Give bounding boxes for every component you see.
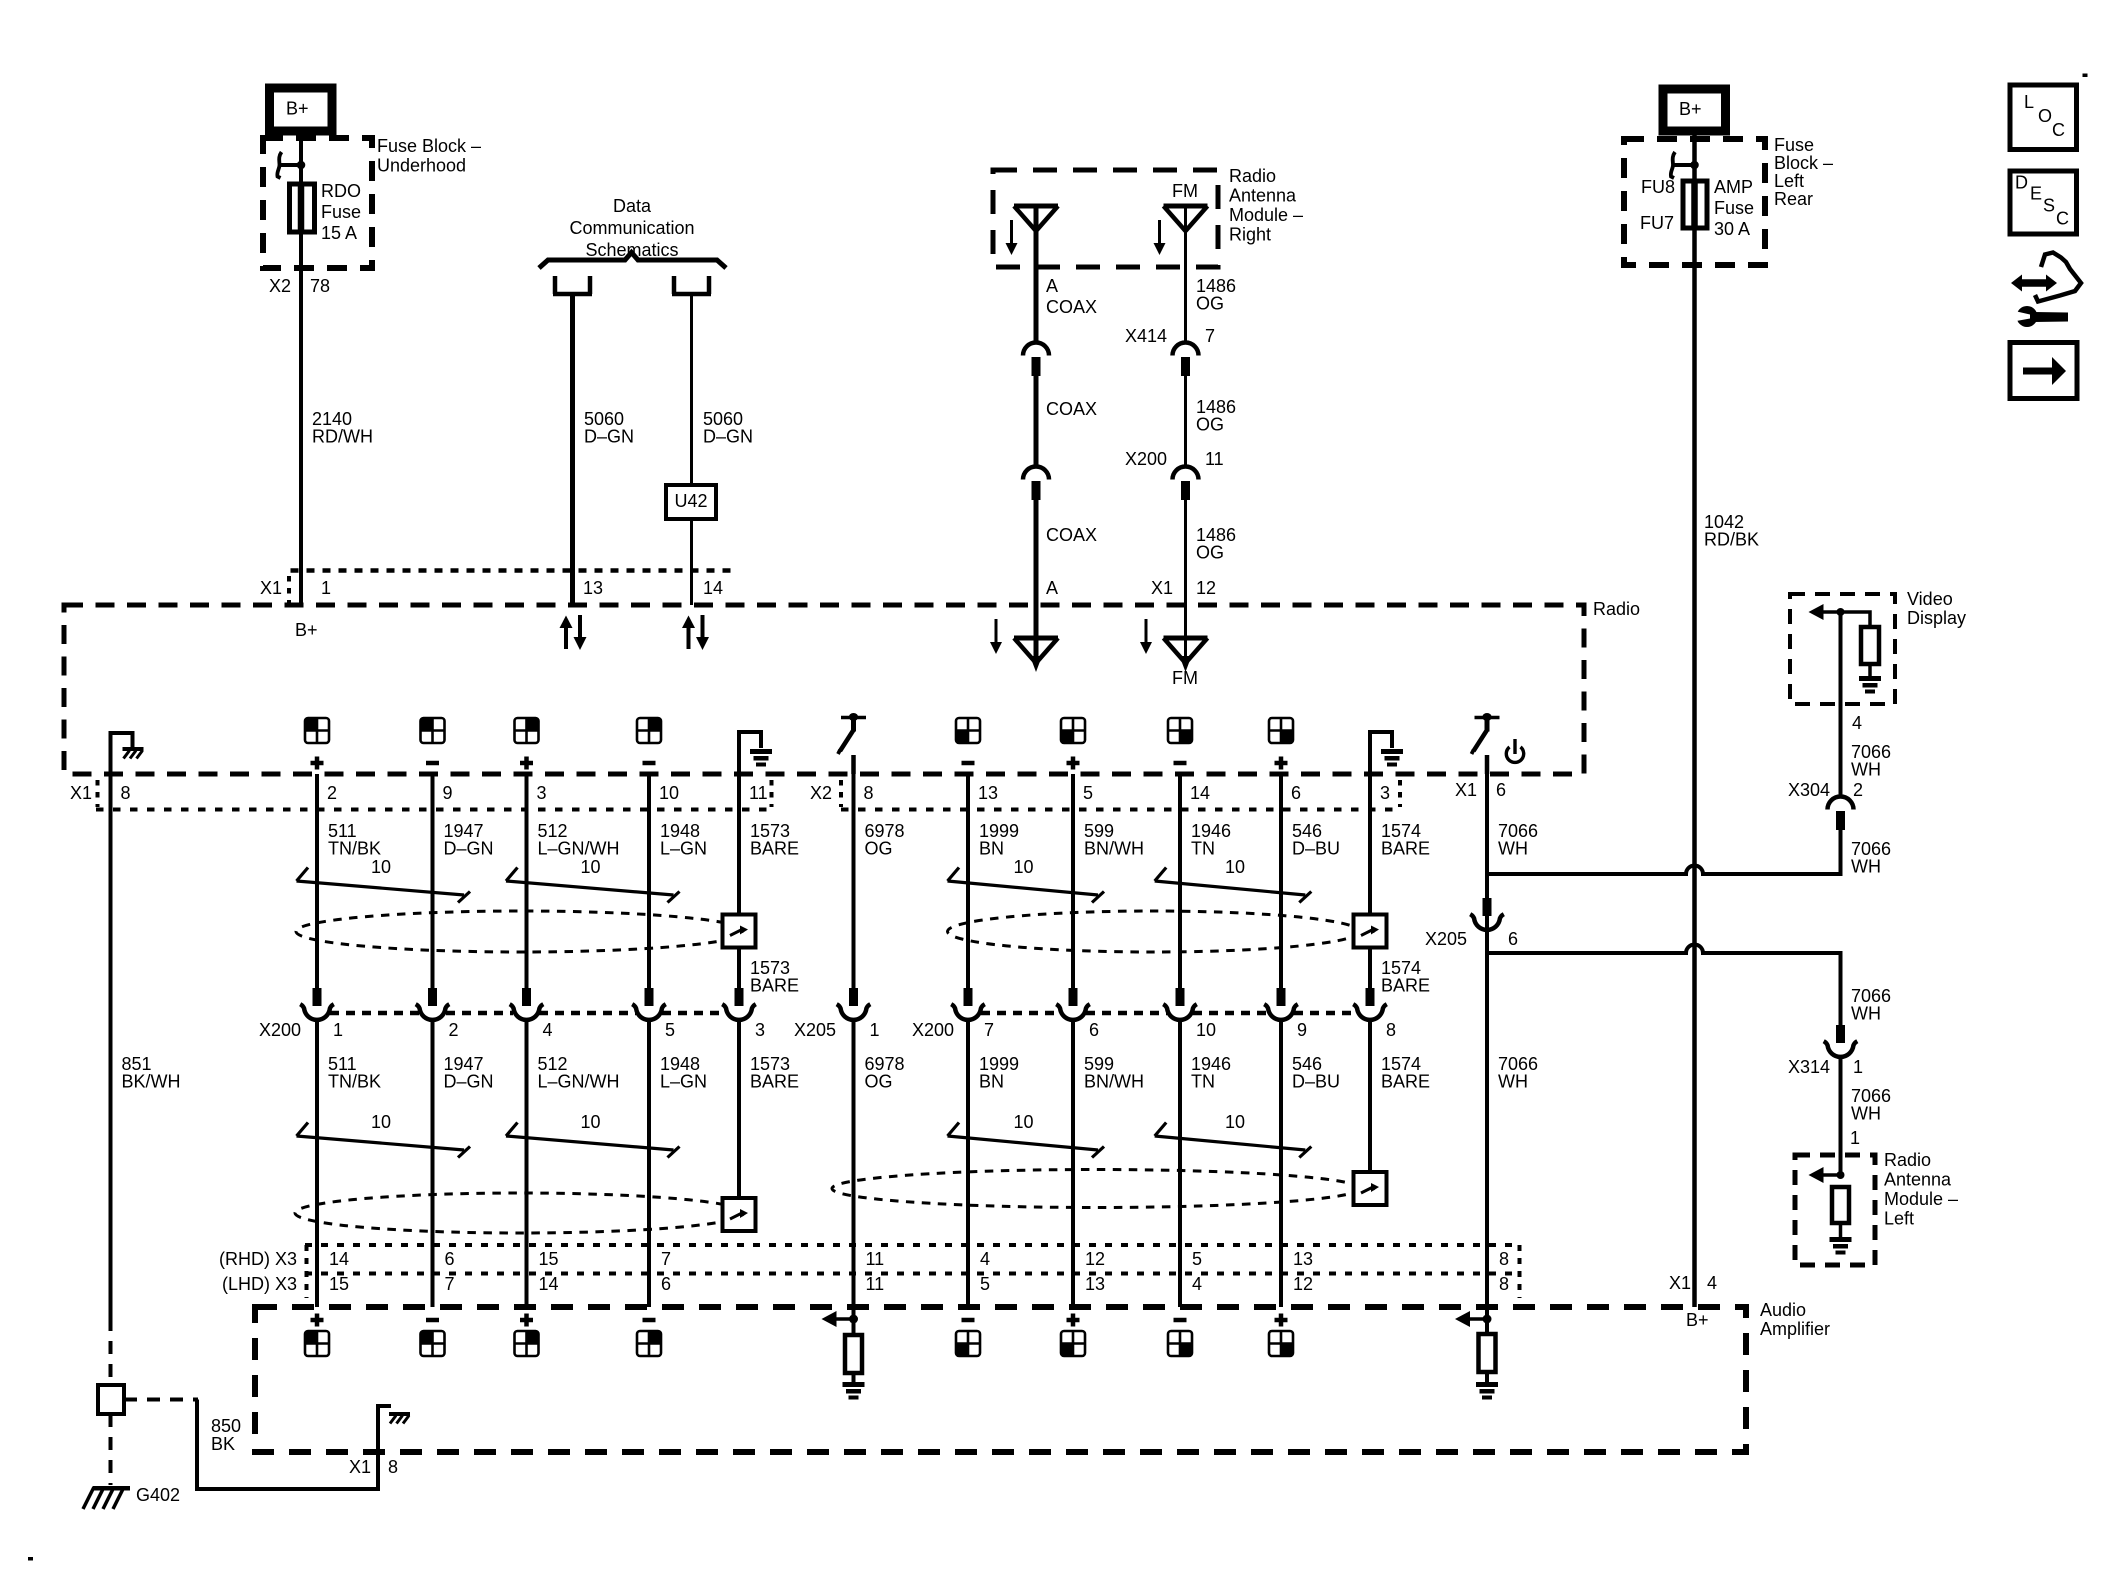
wire 2140 RD/WH fuse to radio X1-1 bbox=[299, 232, 303, 605]
label 512 L–GN/WH (upper) bbox=[538, 821, 620, 859]
svg-text:Radio: Radio bbox=[1229, 166, 1276, 186]
X3 row left edge dots bbox=[305, 1245, 309, 1298]
svg-text:10: 10 bbox=[581, 857, 601, 877]
polarity - (radio output) bbox=[1174, 761, 1187, 766]
separator after pin 3 (X2) bbox=[1398, 780, 1402, 807]
svg-text:RD/WH: RD/WH bbox=[312, 427, 373, 447]
icon connector-repair (arrow + hook + wrench) bbox=[2008, 253, 2081, 328]
speaker icon RF (amplifier) bbox=[637, 1331, 661, 1356]
connector row X200 dotted line (left group) bbox=[330, 1011, 419, 1016]
svg-text:D–BU: D–BU bbox=[1292, 1072, 1340, 1092]
svg-text:COAX: COAX bbox=[1046, 399, 1097, 419]
connector X1 pin 6 labels (7066) bbox=[1455, 780, 1506, 800]
svg-text:WH: WH bbox=[1498, 1072, 1528, 1092]
label Radio Antenna Module - Left bbox=[1884, 1150, 1958, 1229]
svg-text:D: D bbox=[2015, 173, 2028, 193]
svg-text:OG: OG bbox=[1196, 415, 1224, 435]
connector row X3 RHD dotted line bbox=[305, 1243, 1521, 1247]
label 1948 L–GN (lower) bbox=[660, 1054, 707, 1092]
label Fuse Block - Left Rear bbox=[1774, 135, 1833, 209]
earth ground (video display) bbox=[1859, 676, 1881, 694]
connector row X1 (top, pins 1/13/14) dotted line bbox=[291, 568, 738, 573]
wire 1486 OG X414 to X200 bbox=[1184, 376, 1187, 467]
fuse block - left rear (dashed box) bbox=[1624, 139, 1765, 265]
svg-text:4: 4 bbox=[1852, 713, 1862, 733]
connector X205 pin 6 labels bbox=[1425, 929, 1518, 949]
fuse holder feed hook bbox=[277, 152, 305, 178]
icon box forward-arrow bbox=[2010, 343, 2077, 399]
label 1999 BN (lower) bbox=[979, 1054, 1019, 1092]
label 5060 D-GN (right) bbox=[703, 409, 753, 447]
svg-text:FU7: FU7 bbox=[1640, 213, 1674, 233]
svg-text:X1: X1 bbox=[349, 1457, 371, 1477]
wire 851 dashed segment (lower) to G402 bbox=[109, 1414, 113, 1485]
resistor (7066 amplifier) bbox=[1479, 1334, 1496, 1372]
svg-text:X1: X1 bbox=[1455, 780, 1477, 800]
speaker icon RR (+ output) bbox=[1269, 718, 1293, 743]
radio antenna module - left (dashed box) bbox=[1795, 1155, 1875, 1265]
label RDO Fuse 15 A bbox=[321, 181, 361, 243]
label 599 BN/WH (upper) bbox=[1084, 821, 1144, 859]
label AMP Fuse 30 A bbox=[1714, 177, 1754, 239]
label 1573 BARE (lower) bbox=[750, 1054, 799, 1092]
svg-text:14: 14 bbox=[539, 1274, 559, 1294]
polarity + (amplifier input) bbox=[1275, 1314, 1288, 1327]
inline connector X205 pin 1 bbox=[837, 988, 871, 1020]
label 2140 RD/WH bbox=[312, 409, 373, 447]
svg-text:5: 5 bbox=[1083, 783, 1093, 803]
speaker icon RF (amplifier) bbox=[515, 1331, 539, 1356]
svg-text:FU8: FU8 bbox=[1641, 177, 1675, 197]
wire 7066 WH (X205 to amplifier) bbox=[1485, 931, 1489, 1307]
svg-text:9: 9 bbox=[443, 783, 453, 803]
connector X200 pin 11 labels bbox=[1125, 449, 1224, 469]
polarity + (radio output) bbox=[520, 757, 533, 770]
label 1574 BARE (lower) bbox=[1381, 1054, 1430, 1092]
svg-text:BARE: BARE bbox=[750, 839, 799, 859]
wire 511 TN/BK (X200 to amplifier) bbox=[315, 1021, 319, 1307]
svg-text:Video: Video bbox=[1907, 589, 1953, 609]
shield loop (rear speakers, lower) dashed ellipse bbox=[832, 1170, 1360, 1208]
svg-text:Audio: Audio bbox=[1760, 1300, 1806, 1320]
radio internal ground wire (to X1-8) bbox=[111, 733, 133, 774]
wire 7066 WH branch to X314 (with hop) bbox=[1487, 945, 1841, 1026]
label Audio Amplifier bbox=[1760, 1300, 1830, 1339]
polarity - (radio output) bbox=[426, 761, 439, 766]
twisted-pair symbol bbox=[297, 868, 471, 903]
svg-text:BK/WH: BK/WH bbox=[122, 1072, 181, 1092]
polarity - (amplifier input) bbox=[643, 1318, 656, 1323]
wire 1947 D–GN (X200 to amplifier) bbox=[431, 1021, 435, 1307]
svg-text:D–GN: D–GN bbox=[444, 839, 494, 859]
wire 1948 L–GN (radio to X200) bbox=[647, 774, 651, 989]
shield drain connector (1573 upper) bbox=[723, 915, 756, 948]
wire 6978 resistor to ground bbox=[852, 1373, 856, 1382]
inline connector X304 bbox=[1828, 797, 1854, 830]
wire 1574 BARE (radio to X200) bbox=[1368, 774, 1372, 989]
svg-text:1: 1 bbox=[1853, 1057, 1863, 1077]
svg-text:2: 2 bbox=[327, 783, 337, 803]
connector cup (serial data right) bbox=[672, 276, 711, 294]
svg-text:8: 8 bbox=[1499, 1274, 1509, 1294]
label Radio Antenna Module - Right bbox=[1229, 166, 1303, 245]
svg-text:L: L bbox=[2024, 92, 2034, 112]
polarity + (amplifier input) bbox=[1067, 1314, 1080, 1327]
svg-text:10: 10 bbox=[371, 1112, 391, 1132]
polarity - (amplifier input) bbox=[426, 1318, 439, 1323]
wire B+ to fuse (vertical, x=301) bbox=[299, 131, 303, 184]
svg-text:A: A bbox=[1046, 276, 1058, 296]
svg-text:TN: TN bbox=[1191, 1072, 1215, 1092]
signal arrow (antenna module left) bbox=[1809, 1167, 1841, 1183]
connector row X3 LHD dotted line bbox=[305, 1272, 1521, 1276]
wire 1486 OG antenna to X414 bbox=[1184, 208, 1187, 343]
polarity - (radio output) bbox=[962, 761, 975, 766]
wire 7066 resistor to ground bbox=[1485, 1372, 1489, 1382]
svg-text:Block –: Block – bbox=[1774, 153, 1833, 173]
svg-text:Radio: Radio bbox=[1593, 599, 1640, 619]
label 511 TN/BK (lower) bbox=[328, 1054, 381, 1092]
connector X1 label (radio bottom) bbox=[70, 780, 98, 807]
svg-text:10: 10 bbox=[1014, 1112, 1034, 1132]
svg-text:RDO: RDO bbox=[321, 181, 361, 201]
svg-text:A: A bbox=[1046, 578, 1058, 598]
resistor (video display) bbox=[1861, 627, 1879, 664]
svg-text:13: 13 bbox=[1293, 1249, 1313, 1269]
svg-text:4: 4 bbox=[1192, 1274, 1202, 1294]
label Data Communication Schematics bbox=[569, 196, 694, 260]
svg-text:TN: TN bbox=[1191, 839, 1215, 859]
inline connector X414 bbox=[1173, 343, 1199, 376]
label 1486 OG (middle) bbox=[1196, 397, 1236, 435]
junction (antenna module left) bbox=[1837, 1171, 1845, 1179]
wire 1999 BN (X200 to amplifier) bbox=[966, 1021, 970, 1307]
svg-text:10: 10 bbox=[1225, 857, 1245, 877]
svg-text:1: 1 bbox=[333, 1020, 343, 1040]
svg-text:OG: OG bbox=[1196, 543, 1224, 563]
svg-text:C: C bbox=[2056, 209, 2069, 229]
label 7066 WH (video) bbox=[1851, 742, 1891, 780]
fuse RDO Fuse 15 A bbox=[290, 184, 315, 232]
connector X2 label (radio bottom) bbox=[810, 780, 841, 807]
svg-text:WH: WH bbox=[1498, 839, 1528, 859]
label 1946 TN (upper) bbox=[1191, 821, 1231, 859]
wire 7066 inside video display bbox=[1839, 612, 1843, 704]
svg-text:13: 13 bbox=[978, 783, 998, 803]
inline connector X200 pin 7 bbox=[951, 988, 985, 1020]
svg-text:X304: X304 bbox=[1788, 780, 1830, 800]
earth ground (7066 amplifier) bbox=[1476, 1382, 1498, 1400]
coiled feed symbol (X1-6) bbox=[1472, 713, 1500, 754]
svg-text:AMP: AMP bbox=[1714, 177, 1753, 197]
wire 7066 WH video display to X304 bbox=[1839, 704, 1843, 797]
twisted-pair symbol bbox=[948, 868, 1105, 903]
svg-text:11: 11 bbox=[1205, 449, 1224, 469]
fuse block - underhood (dashed box) bbox=[263, 138, 372, 268]
wire 5060 D-GN (right) lower segment to radio pin 14 bbox=[690, 519, 693, 605]
connector cup (serial data left) bbox=[553, 276, 592, 294]
svg-text:B+: B+ bbox=[1686, 1310, 1709, 1330]
connector X1 pin 4 labels (amplifier B+) bbox=[1669, 1273, 1717, 1293]
twisted-pair symbol (lower) bbox=[1155, 1123, 1312, 1158]
connector row X1 (radio bottom) dotted line bbox=[96, 808, 772, 812]
inline connector X200 (coax) bbox=[1173, 467, 1199, 500]
speaker icon LF (+ output) bbox=[305, 718, 329, 743]
wire 850 BK dashed segment bbox=[124, 1398, 198, 1402]
svg-text:X200: X200 bbox=[912, 1020, 954, 1040]
svg-text:2: 2 bbox=[449, 1020, 459, 1040]
radio antenna module - right (dashed box) bbox=[993, 170, 1218, 267]
svg-text:WH: WH bbox=[1851, 1004, 1881, 1024]
svg-text:B+: B+ bbox=[1679, 99, 1702, 119]
junction (6978 amplifier) bbox=[849, 1315, 858, 1324]
twisted-pair symbol (lower) bbox=[506, 1123, 680, 1158]
wire 512 L–GN/WH (radio to X200) bbox=[525, 774, 529, 989]
svg-text:B+: B+ bbox=[286, 99, 309, 119]
wire 5060 D-GN (left) to radio pin 13 bbox=[570, 294, 575, 605]
svg-text:(RHD) X3: (RHD) X3 bbox=[219, 1249, 297, 1269]
svg-text:Fuse: Fuse bbox=[1714, 198, 1754, 218]
inline connector X200 pin 2 bbox=[416, 988, 450, 1020]
fuse holder feed hook (right) bbox=[1671, 152, 1699, 178]
svg-text:12: 12 bbox=[1085, 1249, 1105, 1269]
svg-text:Left: Left bbox=[1774, 171, 1804, 191]
antenna FM (in module) bbox=[1164, 206, 1208, 231]
label 7066 WH (below X304) bbox=[1851, 839, 1891, 877]
speaker icon RR (amplifier) bbox=[1168, 1331, 1192, 1356]
separator after pin 11 bbox=[770, 780, 774, 807]
svg-text:BN/WH: BN/WH bbox=[1084, 1072, 1144, 1092]
icon box DESC bbox=[2010, 171, 2077, 234]
polarity - (radio output) bbox=[643, 761, 656, 766]
inline connector (A coax, row 1) bbox=[1023, 343, 1049, 376]
svg-text:X2: X2 bbox=[810, 783, 832, 803]
svg-text:X1: X1 bbox=[260, 578, 282, 598]
inline connector X200 pin 3 bbox=[722, 988, 756, 1020]
wire 6978 OG (radio to X200) bbox=[852, 774, 856, 989]
icon box LOC bbox=[2010, 85, 2077, 150]
wire 851 BK/WH (X1-8 to connector) bbox=[109, 774, 113, 1318]
svg-text:X200: X200 bbox=[1125, 449, 1167, 469]
svg-text:X1: X1 bbox=[1669, 1273, 1691, 1293]
coiled feed symbol (X2-8) bbox=[838, 713, 866, 754]
svg-text:14: 14 bbox=[703, 578, 723, 598]
label A / COAX (top) bbox=[1046, 276, 1097, 317]
wire 512 L–GN/WH (X200 to amplifier) bbox=[525, 1021, 529, 1307]
svg-text:Fuse: Fuse bbox=[321, 202, 361, 222]
svg-text:8: 8 bbox=[121, 783, 131, 803]
connector X314 pin 1 labels bbox=[1788, 1057, 1863, 1077]
svg-text:Left: Left bbox=[1884, 1209, 1914, 1229]
svg-text:850: 850 bbox=[211, 1416, 241, 1436]
svg-text:WH: WH bbox=[1851, 760, 1881, 780]
twisted-pair symbol (lower) bbox=[297, 1123, 471, 1158]
wire 7066 WH (radio X1-6 down) bbox=[1485, 774, 1489, 989]
svg-text:5: 5 bbox=[665, 1020, 675, 1040]
label 6978 OG (lower) bbox=[865, 1054, 905, 1092]
svg-text:5: 5 bbox=[1192, 1249, 1202, 1269]
svg-text:X205: X205 bbox=[1425, 929, 1467, 949]
svg-text:D–GN: D–GN bbox=[584, 427, 634, 447]
svg-text:Amplifier: Amplifier bbox=[1760, 1319, 1830, 1339]
wire 1573 BARE (X200 to shield box) bbox=[737, 1021, 741, 1204]
wire 546 D–BU (X200 to amplifier) bbox=[1279, 1021, 1283, 1307]
svg-text:1: 1 bbox=[1850, 1128, 1860, 1148]
label 511 TN/BK (upper) bbox=[328, 821, 381, 859]
shield loop (rear speakers) dashed ellipse bbox=[948, 911, 1360, 952]
svg-text:E: E bbox=[2030, 184, 2042, 204]
inline connector (A coax, row 2) bbox=[1023, 467, 1049, 500]
svg-text:15 A: 15 A bbox=[321, 223, 357, 243]
svg-text:X200: X200 bbox=[259, 1020, 301, 1040]
svg-text:FM: FM bbox=[1172, 668, 1198, 688]
svg-text:RD/BK: RD/BK bbox=[1704, 530, 1759, 550]
signal down-arrow (A) bbox=[1006, 220, 1018, 255]
splice U42 bbox=[666, 485, 716, 519]
speaker icon LR (– output) bbox=[956, 718, 980, 743]
connector X304 pin 2 labels bbox=[1788, 780, 1863, 800]
svg-text:BARE: BARE bbox=[750, 1072, 799, 1092]
svg-text:Right: Right bbox=[1229, 225, 1271, 245]
signal arrow (6978) bbox=[822, 1311, 854, 1327]
speaker icon LR (amplifier) bbox=[956, 1331, 980, 1356]
label 1574 BARE (upper) bbox=[1381, 821, 1430, 859]
label 1999 BN (upper) bbox=[979, 821, 1019, 859]
label Video Display bbox=[1907, 589, 1966, 628]
wire B+ to fuse (right) bbox=[1692, 131, 1697, 181]
svg-text:COAX: COAX bbox=[1046, 525, 1097, 545]
svg-text:Underhood: Underhood bbox=[377, 156, 466, 176]
svg-text:L–GN/WH: L–GN/WH bbox=[538, 839, 620, 859]
serial data up/down arrows (pin 13) bbox=[560, 615, 587, 650]
svg-text:L–GN: L–GN bbox=[660, 839, 707, 859]
wire 6978 OG (X200 to amplifier) bbox=[852, 1021, 856, 1307]
connector X1 label (top row) bbox=[260, 576, 289, 603]
chassis ground (amplifier X1-8) bbox=[389, 1412, 410, 1424]
svg-text:7: 7 bbox=[445, 1274, 455, 1294]
label 5060 D-GN (left) bbox=[584, 409, 634, 447]
svg-text:WH: WH bbox=[1851, 1104, 1881, 1124]
wire 1947 D–GN (radio to X200) bbox=[431, 774, 435, 989]
svg-text:8: 8 bbox=[864, 783, 874, 803]
twisted-pair symbol (lower) bbox=[948, 1123, 1105, 1158]
radio shield ground wire (1573) bbox=[739, 732, 761, 774]
label 1486 OG (lower) bbox=[1196, 525, 1236, 563]
label 1946 TN (lower) bbox=[1191, 1054, 1231, 1092]
earth ground (radio 1574) bbox=[1381, 749, 1403, 767]
connector X2 pin 78 labels bbox=[269, 276, 330, 296]
wire 7066 WH X314 to antenna module left bbox=[1839, 1058, 1843, 1175]
wire 546 D–BU (radio to X200) bbox=[1279, 774, 1283, 989]
label Fuse Block - Underhood bbox=[377, 136, 481, 176]
svg-text:1: 1 bbox=[321, 578, 331, 598]
audio amplifier (dashed box) bbox=[255, 1307, 1746, 1452]
speaker icon LF (amplifier) bbox=[305, 1331, 329, 1356]
svg-text:78: 78 bbox=[310, 276, 330, 296]
svg-text:G402: G402 bbox=[136, 1485, 180, 1505]
power symbol B+ (right battery feed) bbox=[1663, 89, 1726, 131]
svg-text:BN: BN bbox=[979, 1072, 1004, 1092]
polarity + (radio output) bbox=[1067, 757, 1080, 770]
inline connector X200 pin 6 bbox=[1056, 988, 1090, 1020]
svg-text:6: 6 bbox=[661, 1274, 671, 1294]
receiving antenna A (radio) bbox=[1014, 605, 1058, 672]
svg-text:10: 10 bbox=[581, 1112, 601, 1132]
svg-text:7: 7 bbox=[661, 1249, 671, 1269]
shield loop (front speakers) dashed ellipse bbox=[296, 911, 746, 952]
signal arrow (7066) bbox=[1455, 1311, 1487, 1327]
svg-text:D–GN: D–GN bbox=[703, 427, 753, 447]
svg-text:7: 7 bbox=[984, 1020, 994, 1040]
coax wire A middle segment bbox=[1034, 376, 1039, 467]
branch to resistor (video display) bbox=[1841, 612, 1871, 627]
label 1947 D–GN (lower) bbox=[444, 1054, 494, 1092]
label 1948 L–GN (upper) bbox=[660, 821, 707, 859]
wire resistor to ground (video display) bbox=[1868, 664, 1872, 676]
label 850 BK bbox=[211, 1416, 241, 1454]
fuse element (right) bbox=[1691, 182, 1698, 227]
inline connector X314 bbox=[1824, 1025, 1858, 1057]
inline connector (851) bbox=[98, 1385, 124, 1414]
svg-text:15: 15 bbox=[539, 1249, 559, 1269]
label 7066 WH (above X314) bbox=[1851, 986, 1891, 1024]
signal arrow (video display) bbox=[1809, 604, 1841, 620]
inline connector X200 pin 1 bbox=[300, 988, 334, 1020]
speaker icon LR (+ output) bbox=[1061, 718, 1085, 743]
svg-text:BN: BN bbox=[979, 839, 1004, 859]
serial data up/down arrows (pin 14) bbox=[682, 615, 709, 650]
coax wire A antenna to connector bbox=[1034, 208, 1039, 343]
shield drain connector (1574 upper) bbox=[1354, 915, 1387, 948]
wire 850 BK (to amplifier X1-8) bbox=[197, 1400, 391, 1490]
inline connector X200 pin 8 bbox=[1353, 988, 1387, 1020]
label 6978 OG (upper) bbox=[865, 821, 905, 859]
svg-text:6: 6 bbox=[1089, 1020, 1099, 1040]
svg-text:30 A: 30 A bbox=[1714, 219, 1750, 239]
label 1573 BARE (below shield) bbox=[750, 958, 799, 996]
wire 5060 D-GN (right) upper segment bbox=[690, 294, 693, 485]
svg-text:Communication: Communication bbox=[569, 218, 694, 238]
svg-text:BARE: BARE bbox=[1381, 976, 1430, 996]
svg-text:(LHD) X3: (LHD) X3 bbox=[222, 1274, 297, 1294]
svg-text:10: 10 bbox=[1014, 857, 1034, 877]
svg-text:5: 5 bbox=[980, 1274, 990, 1294]
svg-text:6: 6 bbox=[1508, 929, 1518, 949]
svg-text:10: 10 bbox=[371, 857, 391, 877]
X3 row right edge dots bbox=[1518, 1245, 1522, 1298]
wire 1946 TN (X200 to amplifier) bbox=[1178, 1021, 1182, 1307]
svg-text:6: 6 bbox=[1496, 780, 1506, 800]
label 7066 WH (upper) bbox=[1498, 821, 1538, 859]
earth ground (6978 amplifier) bbox=[843, 1382, 865, 1400]
svg-text:Radio: Radio bbox=[1884, 1150, 1931, 1170]
connector X1 pin 12 labels bbox=[1151, 578, 1216, 598]
svg-text:1: 1 bbox=[870, 1020, 880, 1040]
wire 1948 L–GN (X200 to amplifier) bbox=[647, 1021, 651, 1307]
wire 7066 WH branch to video display (with hop) bbox=[1487, 820, 1841, 874]
wire 1946 TN (radio to X200) bbox=[1178, 774, 1182, 989]
svg-text:9: 9 bbox=[1297, 1020, 1307, 1040]
radio (dashed box) bbox=[64, 605, 1584, 774]
wire 7066 inside amplifier bbox=[1485, 1307, 1489, 1334]
svg-text:3: 3 bbox=[537, 783, 547, 803]
svg-text:10: 10 bbox=[659, 783, 679, 803]
brace under Data Communication Schematics bbox=[539, 253, 726, 269]
shield drain connector (1573 lower) bbox=[723, 1198, 756, 1231]
antenna A (in module) bbox=[1014, 206, 1058, 231]
wire 6978 inside amplifier bbox=[852, 1307, 856, 1335]
wire 1486 OG X200 to radio pin 12 bbox=[1184, 500, 1187, 605]
